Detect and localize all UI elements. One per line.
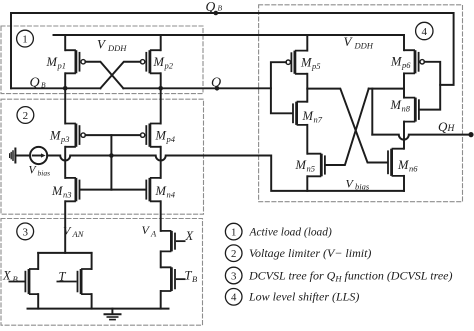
- svg-text:p5: p5: [311, 61, 321, 71]
- svg-text:bias: bias: [38, 169, 51, 178]
- wire Mp2 drain: [160, 73, 162, 88]
- wire ground to Vbias source: [15, 155, 30, 157]
- wire T source: [91, 294, 93, 309]
- wire Q node line (right): [123, 87, 271, 89]
- svg-text:1: 1: [22, 34, 28, 46]
- transistor XB: [9, 269, 39, 294]
- svg-text:DDH: DDH: [354, 41, 374, 51]
- transistor Mp6: [404, 50, 424, 73]
- dashed box section 4: [259, 5, 463, 202]
- transistor Mp1: [65, 50, 85, 73]
- svg-text:Voltage limiter (V− limit): Voltage limiter (V− limit): [249, 246, 371, 260]
- wire Mp6/Mn8 gate tie to QB: [420, 62, 440, 110]
- svg-text:2: 2: [23, 110, 29, 122]
- svg-text:B: B: [41, 81, 46, 90]
- wire section 3 ground rail: [28, 308, 169, 310]
- svg-text:M: M: [46, 55, 58, 69]
- wire Mp1 source: [64, 35, 66, 50]
- transistor Mn8: [404, 98, 419, 122]
- svg-text:T: T: [59, 270, 67, 284]
- svg-text:Q: Q: [30, 76, 40, 91]
- svg-text:1: 1: [231, 227, 236, 239]
- svg-text:p1: p1: [57, 61, 67, 71]
- svg-text:M: M: [155, 129, 167, 143]
- transistor Mp3: [65, 124, 85, 147]
- legend item 2: [225, 245, 242, 262]
- svg-text:M: M: [51, 184, 63, 198]
- svg-text:B: B: [192, 274, 197, 284]
- svg-text:DDH: DDH: [107, 43, 127, 53]
- svg-text:p6: p6: [401, 60, 411, 70]
- svg-text:n8: n8: [402, 104, 411, 114]
- wire Mp5 drain to Mn7 drain: [306, 74, 308, 102]
- wire T drain: [91, 253, 93, 269]
- svg-text:3: 3: [231, 270, 236, 282]
- svg-text:M: M: [302, 109, 314, 123]
- section marker 4: [416, 22, 433, 39]
- wire Mn4 gate: [111, 189, 145, 191]
- transistor Mn6: [388, 149, 404, 176]
- svg-text:bias: bias: [355, 182, 370, 192]
- svg-text:Active load (load): Active load (load): [249, 227, 332, 239]
- svg-text:3: 3: [22, 226, 28, 238]
- wire XB source: [37, 294, 39, 309]
- wire Mp2 source: [160, 35, 162, 50]
- transistor Mn4: [146, 178, 160, 201]
- wire right node to QH line: [371, 89, 373, 135]
- svg-text:p4: p4: [166, 134, 176, 144]
- wire QH output with hop: [372, 135, 471, 140]
- wire VAN bar: [38, 252, 91, 254]
- wire QB node line (left): [11, 87, 100, 89]
- svg-text:Low level shifter (LLS): Low level shifter (LLS): [248, 290, 359, 304]
- dashed box section 2: [1, 99, 204, 214]
- svg-text:M: M: [155, 184, 167, 198]
- transistor TB: [161, 267, 186, 291]
- wire Mp4 drain to Mn4 drain: [160, 147, 162, 178]
- transistor Mp5: [286, 51, 307, 74]
- svg-text:Q: Q: [206, 0, 216, 14]
- wire Mn3 gate: [80, 189, 111, 191]
- wire Mn7 source to Mn5 drain: [306, 125, 308, 154]
- legend item 4: [225, 289, 242, 306]
- ground left (rotated): [14, 149, 16, 163]
- wire Mn5 source: [306, 176, 308, 191]
- svg-text:X: X: [2, 269, 12, 283]
- section marker 2: [17, 107, 34, 124]
- node bias center: [109, 153, 114, 158]
- transistor Mn7: [293, 102, 307, 125]
- svg-text:M: M: [397, 158, 409, 172]
- svg-text:M: M: [390, 98, 402, 112]
- node QB top marker: [214, 11, 219, 16]
- wire Mp3 drain to Mn3 drain: [64, 147, 66, 178]
- wire Mn8 source to Mn6 drain: [403, 122, 405, 149]
- svg-text:n3: n3: [63, 190, 72, 200]
- wire Mn3 source column to section 3: [64, 201, 66, 253]
- transistor Mp4: [140, 124, 160, 147]
- svg-text:n5: n5: [307, 164, 316, 174]
- wire Mp5 source: [306, 35, 308, 51]
- wire TB source: [160, 291, 162, 309]
- wire Mp6 source: [403, 35, 405, 50]
- wire Mn6 source: [403, 176, 405, 191]
- wire XB drain: [37, 253, 39, 269]
- wire bias line with hops, turning down into section 4 rail: [47, 156, 404, 191]
- wire Mp3-Mp4 gate bus: [85, 134, 140, 136]
- wire Mp1 gate cross-couple to Q: [85, 62, 123, 89]
- wire right node horizontal: [369, 88, 404, 90]
- svg-text:n4: n4: [167, 190, 176, 200]
- ground section 3: [111, 309, 113, 314]
- node Q marker: [215, 86, 220, 91]
- wire Mp2 gate cross-couple to QB: [100, 62, 140, 89]
- transistor Mp2: [140, 50, 160, 73]
- svg-text:2: 2: [231, 248, 236, 260]
- dashed box section 3: [1, 219, 203, 326]
- current source Vbias: [30, 147, 47, 164]
- node QB at Mp1 drain: [63, 86, 68, 91]
- wire Mn4 source column to section 3: [160, 201, 162, 231]
- svg-text:Q: Q: [211, 75, 221, 90]
- svg-text:n6: n6: [409, 164, 418, 174]
- wire VDDH rail: [54, 34, 404, 36]
- wire Mp6 drain to Mn8 drain: [403, 73, 405, 97]
- wire left node to Mn6 gate (diagonal): [307, 89, 387, 163]
- svg-text:M: M: [153, 55, 165, 69]
- legend item 3: [225, 267, 242, 284]
- svg-text:p3: p3: [60, 134, 70, 144]
- node QH output: [468, 132, 473, 137]
- svg-text:A: A: [150, 229, 157, 239]
- section marker 1: [17, 30, 34, 47]
- wire QB feedback: left vertical, top rail, right vertical into section 4: [11, 13, 454, 88]
- transistor Mn5: [307, 154, 325, 177]
- svg-text:n7: n7: [314, 115, 323, 125]
- transistor X: [161, 231, 186, 252]
- svg-text:4: 4: [231, 292, 237, 304]
- wire Q to Mp5/Mn7 gates: [271, 62, 293, 113]
- section marker 3: [17, 223, 34, 240]
- svg-text:4: 4: [422, 26, 428, 38]
- node Q at Mp2 drain: [158, 86, 163, 91]
- transistor T: [57, 269, 92, 294]
- wire right node to Mn5 gate (diagonal): [326, 89, 369, 165]
- svg-text:M: M: [390, 55, 402, 69]
- svg-text:M: M: [295, 158, 307, 172]
- svg-text:DCVSL tree for QH function (DC: DCVSL tree for QH function (DCVSL tree): [248, 268, 452, 283]
- svg-text:M: M: [300, 56, 312, 70]
- dashed box section 1: [1, 26, 203, 94]
- wire Mp4 source column: [160, 88, 162, 123]
- svg-text:Q: Q: [438, 119, 448, 134]
- wire Mp1 drain: [64, 73, 66, 88]
- svg-text:H: H: [447, 124, 456, 134]
- wire center gate column: [110, 135, 112, 189]
- svg-text:AN: AN: [72, 229, 85, 239]
- legend item 1: [225, 223, 242, 240]
- svg-text:B: B: [218, 4, 223, 13]
- svg-text:p2: p2: [164, 61, 174, 71]
- svg-text:X: X: [185, 229, 195, 243]
- svg-text:B: B: [13, 274, 18, 284]
- transistor Mn3: [65, 178, 79, 201]
- wire X source to TB drain: [160, 251, 162, 267]
- wire Mp3 source column: [64, 88, 66, 123]
- svg-text:M: M: [49, 129, 61, 143]
